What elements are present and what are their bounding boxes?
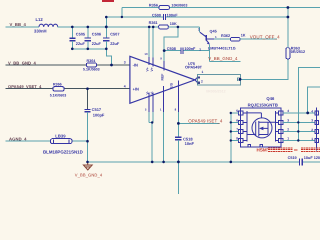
svg-text:V_BB_GND_4: V_BB_GND_4 <box>75 172 103 177</box>
svg-text:330nH: 330nH <box>34 29 47 34</box>
svg-text:0R/2512: 0R/2512 <box>291 50 305 54</box>
shunt box (output sense) <box>195 70 240 94</box>
connector far-right package <box>311 108 318 152</box>
svg-text:1: 1 <box>202 70 204 74</box>
svg-text:-IN: -IN <box>133 63 138 68</box>
op-amp V- pins <box>149 93 153 113</box>
wire V_BB left <box>6 26 40 28</box>
svg-text:5.1K/0603: 5.1K/0603 <box>83 67 100 71</box>
op-amp ILIM pin <box>177 81 179 113</box>
wire output to R363 <box>240 59 288 79</box>
transistor Q45 <box>198 27 241 61</box>
svg-text:22uF: 22uF <box>92 41 102 46</box>
svg-text:E/S: E/S <box>169 82 173 88</box>
svg-text:R364: R364 <box>87 59 97 63</box>
svg-text:4: 4 <box>124 85 126 89</box>
svg-text:10K: 10K <box>170 22 177 26</box>
svg-text:OPA549T: OPA549T <box>185 65 203 70</box>
wire Q46 gate bus <box>231 113 239 162</box>
wire R361 to Q45 collector <box>199 27 201 32</box>
Q46 right pin pads <box>279 111 283 115</box>
svg-text:+IN: +IN <box>133 86 139 91</box>
resistor R362 <box>214 34 277 42</box>
resistor R356 <box>122 4 320 10</box>
resistor R366 <box>6 83 131 98</box>
resistor R363 <box>286 8 305 59</box>
svg-text:LB39: LB39 <box>55 133 66 138</box>
ground V_BB_GND_4 <box>75 162 103 177</box>
svg-text:1K: 1K <box>241 34 246 38</box>
svg-text:C505: C505 <box>76 32 86 37</box>
svg-text:10uF 120: 10uF 120 <box>304 156 320 160</box>
svg-text:R361: R361 <box>149 21 158 25</box>
ferrite bead LB39 <box>6 133 88 154</box>
svg-text:3: 3 <box>287 118 289 122</box>
svg-text:100nF: 100nF <box>167 14 179 18</box>
svg-text:1: 1 <box>287 137 289 141</box>
svg-text:C500: C500 <box>152 14 161 18</box>
Q46 internal drain/source bar <box>276 111 279 142</box>
op-amp V+ pins <box>149 27 153 58</box>
svg-text:100pF: 100pF <box>93 112 105 117</box>
svg-text:LMBT4401LT1G: LMBT4401LT1G <box>208 46 236 50</box>
svg-text:R362: R362 <box>221 34 230 38</box>
capacitor C517 <box>84 89 105 162</box>
svg-text:5.1K/0603: 5.1K/0603 <box>50 94 67 98</box>
wire Q46 drain rows <box>283 113 315 141</box>
transistor Q46 <box>236 96 289 147</box>
Q46 left pin pads <box>239 111 243 115</box>
svg-text:RQJE150GNTB: RQJE150GNTB <box>248 103 278 108</box>
svg-text:8: 8 <box>236 137 238 141</box>
svg-text:5: 5 <box>236 109 238 113</box>
svg-text:V+: V+ <box>150 67 154 71</box>
inductor L12 <box>34 17 58 34</box>
svg-text:2: 2 <box>201 79 203 83</box>
op-amp E/S pin <box>163 51 165 61</box>
svg-text:3: 3 <box>311 119 313 123</box>
svg-text:7: 7 <box>236 128 238 132</box>
svg-text:3: 3 <box>124 61 126 65</box>
svg-text:C506: C506 <box>92 32 102 37</box>
svg-text:2: 2 <box>311 128 313 132</box>
svg-text:22uF: 22uF <box>110 41 120 46</box>
svg-text:REF: REF <box>161 74 165 81</box>
svg-text:L12: L12 <box>36 17 44 22</box>
svg-text:HSMT: HSMT <box>257 148 270 153</box>
capacitor C505 <box>69 27 86 49</box>
capacitor C506 <box>85 27 102 49</box>
op-amp REF pin <box>163 86 165 112</box>
node OPA549_ISET_4 <box>178 118 223 123</box>
svg-text:AGND_4: AGND_4 <box>9 136 27 141</box>
note HSMT (chinese) <box>257 147 320 152</box>
svg-text:V_BB_4: V_BB_4 <box>10 22 27 27</box>
svg-text:C507: C507 <box>110 32 119 37</box>
svg-text:0R005/2512: 0R005/2512 <box>206 90 226 94</box>
svg-text:10nF: 10nF <box>185 141 195 146</box>
red marker box <box>102 0 114 2</box>
wire row2 drop to V_BB rail <box>105 17 107 27</box>
wire caps bottom rail to -IN <box>72 49 111 65</box>
capacitor C500 <box>106 14 288 21</box>
svg-text:2: 2 <box>287 128 289 132</box>
svg-text:VOUT_OFF_4: VOUT_OFF_4 <box>250 34 280 39</box>
wire R361 node to op-amp E/S pin <box>164 27 178 51</box>
wire row1 drop to row2 <box>121 8 123 18</box>
svg-text:R366: R366 <box>53 83 62 87</box>
wire corner B (to Q46 pin 4 row) <box>308 87 320 113</box>
svg-text:10K/0603: 10K/0603 <box>171 4 187 8</box>
svg-text:100nF: 100nF <box>184 47 196 51</box>
Q46 internal gate bar <box>243 111 256 142</box>
Q46 mosfet symbol <box>252 118 272 138</box>
wire ground rail <box>88 161 320 163</box>
svg-text:4: 4 <box>287 109 289 113</box>
op-amp U75 <box>130 27 203 162</box>
capacitor C508 <box>164 47 209 54</box>
wire corner A (to Q46 right pins) <box>298 68 320 141</box>
svg-text:C508: C508 <box>167 47 176 51</box>
svg-text:4: 4 <box>311 109 313 113</box>
svg-text:V_BB_GND_4: V_BB_GND_4 <box>208 56 238 61</box>
capacitor C507 <box>103 27 120 49</box>
svg-text:1: 1 <box>311 137 313 141</box>
svg-text:10: 10 <box>144 52 148 56</box>
svg-text:OPA549 ISET_4: OPA549 ISET_4 <box>188 118 223 123</box>
svg-text:V-: V- <box>150 91 154 94</box>
svg-text:Q45: Q45 <box>210 29 217 33</box>
wire V_BB rail <box>58 26 159 28</box>
svg-text:Q46: Q46 <box>266 96 275 101</box>
svg-text:6: 6 <box>236 118 238 122</box>
svg-text:R356: R356 <box>149 4 158 8</box>
resistor R361 <box>149 21 200 29</box>
svg-text:BLM18PG221SN1D: BLM18PG221SN1D <box>43 149 83 154</box>
capacitor C518 <box>175 136 194 194</box>
resistor R364 <box>6 59 131 72</box>
svg-text:C519: C519 <box>288 156 297 160</box>
capacitor C519 (series in rail) <box>288 156 320 166</box>
svg-text:22uF: 22uF <box>76 41 86 46</box>
